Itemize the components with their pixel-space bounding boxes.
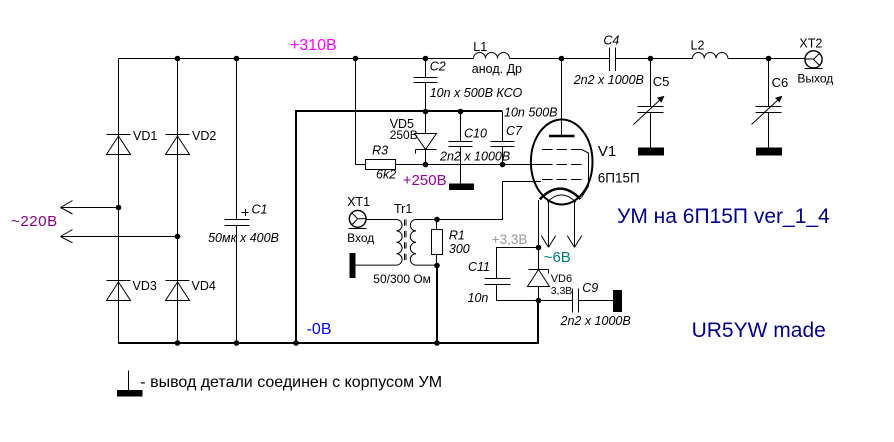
svg-text:6П15П: 6П15П: [598, 171, 640, 186]
wire top +310V rail left section: [119, 58, 474, 60]
tube V1 heater lead right with arrow: [567, 201, 581, 247]
svg-text:C9: C9: [582, 281, 598, 295]
svg-text:VD3: VD3: [133, 279, 157, 293]
chassis ground bar right of C9: [613, 290, 622, 312]
node rail-C1: [234, 56, 240, 62]
svg-text:V1: V1: [598, 143, 616, 160]
svg-text:УМ на 6П15П ver_1_4: УМ на 6П15П ver_1_4: [617, 205, 830, 228]
tube V1 grid g3 dashes: [542, 149, 582, 151]
svg-text:3,3В: 3,3В: [551, 285, 573, 297]
svg-text:10n 500В: 10n 500В: [504, 106, 558, 120]
svg-text:+310В: +310В: [290, 37, 337, 54]
wire cathode lead: [538, 200, 540, 248]
svg-text:UR5YW made: UR5YW made: [692, 319, 826, 342]
svg-text:C6: C6: [772, 75, 789, 90]
chassis ground bar under C10: [449, 184, 474, 191]
capacitor C4 plates: [610, 48, 616, 72]
wire ground loop thick: vertical x296 and horizontal y111: [296, 111, 503, 344]
resistor R1: [432, 230, 443, 255]
node C2-VD5: [423, 109, 429, 115]
svg-text:~6В: ~6В: [544, 249, 571, 266]
wire C2 column: [425, 59, 427, 112]
svg-text:~220В: ~220В: [11, 213, 58, 230]
variable capacitor C6: [752, 59, 783, 148]
transformer Tr1 core: [405, 220, 407, 263]
wire top rail between L2 and XT2: [728, 58, 805, 60]
diode VD4: [166, 281, 190, 301]
wire R1 bottom: [436, 255, 438, 266]
capacitor C1 plates: [225, 220, 250, 226]
inductor L1 coil: [474, 53, 510, 59]
svg-text:VD2: VD2: [192, 129, 216, 143]
svg-text:Tr1: Tr1: [394, 202, 412, 216]
wire top rail between L1 and C4: [510, 58, 610, 60]
svg-text:VD6: VD6: [551, 273, 572, 285]
tube V1 grid g1 dashes: [542, 179, 582, 181]
wire left column VD1/VD3: [118, 59, 120, 345]
svg-text:C7: C7: [506, 124, 523, 138]
node AC upper: [116, 205, 122, 211]
wire second column VD2/VD4: [177, 59, 179, 345]
diode VD3: [107, 281, 131, 301]
node C7-250V: [500, 162, 506, 168]
wire R1 node to bottom rail (thick): [436, 266, 438, 345]
wire top rail between C4 and L2: [616, 58, 693, 60]
zener diode VD5: [415, 112, 437, 165]
svg-text:10n: 10n: [468, 291, 489, 305]
svg-text:2n2 х 1000В: 2n2 х 1000В: [573, 73, 644, 87]
capacitor C11: [485, 248, 539, 301]
capacitor C10: [449, 112, 473, 184]
tube V1 envelope: [531, 120, 593, 205]
svg-text:6k2: 6k2: [376, 168, 396, 182]
wire C1 column upper: [236, 59, 238, 220]
tube V1 anode plate: [549, 135, 575, 138]
svg-text:VD1: VD1: [133, 129, 157, 143]
svg-text:XT1: XT1: [347, 195, 370, 209]
node VD5-250V: [423, 162, 429, 168]
chassis ground bar at Tr1: [350, 253, 356, 278]
svg-text:2n2 х 1000В: 2n2 х 1000В: [439, 150, 510, 164]
tube V1 heater arc: [547, 195, 576, 202]
node rail bottom R1: [434, 340, 440, 346]
wire cathode node to bottom rail (thick): [537, 301, 539, 345]
svg-text:-0В: -0В: [307, 321, 332, 338]
node rail bottom C1: [234, 340, 240, 346]
capacitor C2 plates: [414, 78, 438, 83]
connector XT1: [349, 210, 367, 228]
node rail-C2: [423, 56, 429, 62]
wire Tr1 primary bottom to chassis: [356, 264, 397, 266]
svg-text:C4: C4: [603, 33, 619, 47]
node R1 bottom: [434, 263, 440, 269]
svg-text:300: 300: [449, 242, 470, 256]
node rail-C6: [766, 56, 772, 62]
capacitor C7: [491, 112, 515, 165]
wire bottom -0V rail (thick): [118, 342, 538, 344]
svg-text:C2: C2: [430, 60, 446, 74]
transformer Tr1 secondary winding: [410, 220, 416, 266]
diode VD1: [107, 135, 131, 155]
node rail-VD2: [175, 56, 181, 62]
legend chassis symbol: [128, 371, 130, 391]
variable capacitor C5: [634, 59, 665, 148]
svg-text:Выход: Выход: [797, 72, 833, 86]
inductor L2 coil: [693, 53, 728, 59]
node AC lower: [175, 234, 181, 240]
svg-text:анод. Др: анод. Др: [472, 62, 522, 76]
capacitor C1 polarity plus: [242, 209, 249, 216]
wire AC input lower with arrow: [61, 236, 178, 238]
node rail bottom loop: [293, 340, 299, 346]
svg-text:L1: L1: [473, 40, 487, 54]
svg-text:- вывод детали соединен с корп: - вывод детали соединен с корпусом УМ: [140, 374, 442, 391]
wire C1 column lower: [236, 226, 238, 345]
svg-text:+3,3В: +3,3В: [492, 232, 528, 247]
svg-text:2n2 х 1000В: 2n2 х 1000В: [560, 314, 631, 328]
svg-text:Вход: Вход: [347, 231, 374, 245]
transformer Tr1 primary winding with lead from XT1: [366, 220, 402, 266]
node rail-C5: [648, 56, 654, 62]
wire Tr1 secondary bottom to R1 node: [416, 264, 437, 266]
capacitor C9: [539, 289, 614, 313]
chassis ground bar under C6: [756, 148, 782, 156]
wire Tr1 secondary top to R1 node: [416, 219, 437, 221]
svg-text:L2: L2: [691, 39, 705, 53]
diode VD2: [166, 135, 190, 155]
resistor R3: [366, 160, 396, 170]
svg-text:10n х 500В КСО: 10n х 500В КСО: [430, 86, 523, 100]
node rail bottom VD4: [175, 340, 181, 346]
node cathode +3.3V: [536, 245, 542, 251]
wire R1 top: [436, 220, 438, 230]
tube V1 heater lead left with arrow: [541, 201, 555, 247]
connector XT2: [805, 51, 823, 69]
zener diode VD6: [528, 248, 550, 301]
node C10 top: [458, 109, 464, 115]
wire +250V line: [396, 164, 543, 166]
svg-text:R3: R3: [372, 144, 388, 158]
node rail-anode: [559, 56, 565, 62]
tube V1 g3 to cathode internal link: [582, 150, 589, 198]
svg-text:50/300 Ом: 50/300 Ом: [373, 272, 431, 286]
tube V1 grid g2 dashes: [542, 164, 582, 166]
svg-text:50мк х 400В: 50мк х 400В: [208, 231, 279, 245]
wire g1 connection loop: [437, 182, 541, 220]
svg-text:C1: C1: [252, 203, 268, 217]
tube V1 anode lead: [561, 59, 563, 137]
svg-text:C5: C5: [653, 74, 670, 89]
svg-text:VD4: VD4: [192, 279, 216, 293]
svg-text:C10: C10: [464, 127, 487, 141]
svg-text:XT2: XT2: [799, 37, 822, 51]
svg-text:R1: R1: [449, 229, 465, 243]
svg-text:C11: C11: [468, 260, 490, 274]
svg-text:+250В: +250В: [403, 172, 447, 189]
node R1 top: [434, 217, 440, 223]
wire AC input upper with arrow: [61, 207, 119, 209]
chassis ground bar under C5: [638, 148, 664, 156]
svg-text:250В: 250В: [390, 128, 418, 142]
node rail-R3: [353, 56, 359, 62]
tube V1 cathode arc: [540, 189, 581, 200]
node VD6 bottom: [536, 298, 542, 304]
wire R3 feed column from rail: [356, 59, 366, 165]
